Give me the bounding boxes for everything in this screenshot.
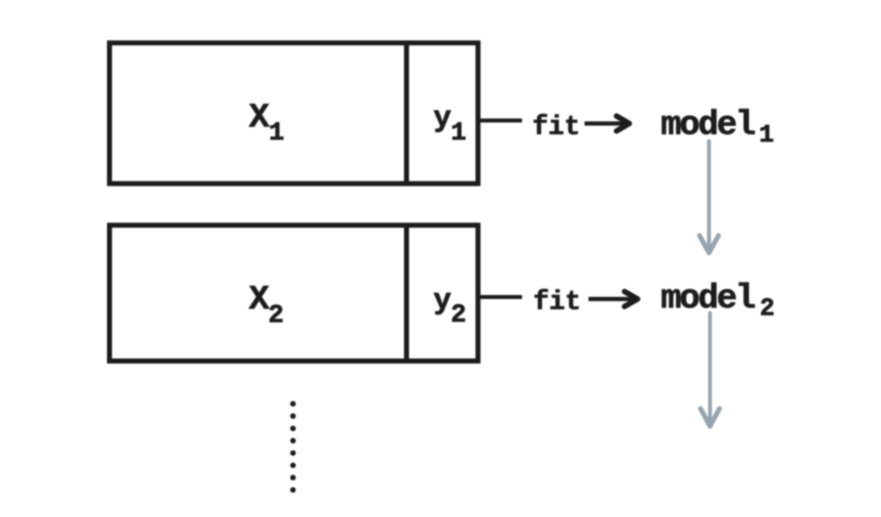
svg-text:2: 2 <box>451 300 467 330</box>
svg-text:1: 1 <box>269 118 285 148</box>
svg-text:model: model <box>661 106 755 145</box>
svg-text:model: model <box>661 280 755 319</box>
svg-text:2: 2 <box>268 300 284 330</box>
svg-text:fit: fit <box>533 287 581 317</box>
svg-text:X: X <box>249 282 270 320</box>
svg-text:y: y <box>433 284 451 318</box>
svg-text:1: 1 <box>451 118 467 148</box>
svg-text:2: 2 <box>760 294 775 323</box>
svg-text:X: X <box>249 100 270 138</box>
svg-text:1: 1 <box>759 120 774 149</box>
svg-text:fit: fit <box>532 112 580 142</box>
svg-text:y: y <box>433 102 451 136</box>
